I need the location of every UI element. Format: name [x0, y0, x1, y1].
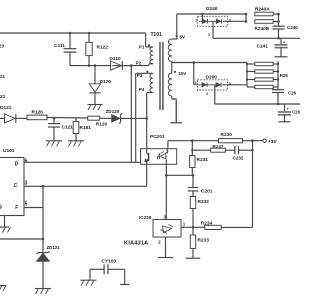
svg-text:P2: P2: [136, 61, 142, 66]
svg-text:3: 3: [229, 82, 231, 86]
svg-text:R240A: R240A: [255, 6, 270, 11]
svg-text:3: 3: [25, 181, 28, 187]
svg-text:C: C: [14, 183, 18, 189]
svg-text:3: 3: [208, 33, 210, 37]
svg-text:IC230: IC230: [139, 215, 152, 220]
svg-text:D: D: [15, 162, 19, 168]
svg-text:R120: R120: [96, 121, 108, 127]
svg-text:C121: C121: [62, 125, 74, 131]
svg-text:5V: 5V: [180, 35, 187, 40]
svg-text:5: 5: [25, 201, 28, 207]
svg-text:R231: R231: [197, 157, 209, 163]
svg-text:R233: R233: [198, 237, 210, 243]
svg-text:F: F: [15, 205, 18, 211]
svg-text:C241: C241: [257, 44, 269, 50]
svg-text:R234: R234: [201, 221, 213, 227]
svg-text:R232: R232: [198, 199, 210, 205]
svg-text:D121: D121: [0, 105, 12, 111]
svg-text:P4: P4: [139, 87, 145, 92]
svg-text:R151: R151: [80, 125, 92, 131]
svg-text:C111: C111: [54, 43, 65, 49]
svg-text:22: 22: [0, 94, 6, 99]
svg-text:23: 23: [0, 44, 5, 49]
svg-text:CY103: CY103: [102, 259, 117, 265]
svg-text:T101: T101: [151, 32, 163, 38]
svg-text:ZD120: ZD120: [106, 109, 120, 114]
svg-text:+3V: +3V: [268, 139, 277, 145]
svg-text:C201: C201: [201, 188, 213, 194]
svg-text:+: +: [286, 107, 289, 112]
svg-text:P3: P3: [137, 73, 143, 78]
svg-text:C26: C26: [288, 90, 297, 95]
svg-text:C261: C261: [292, 109, 300, 114]
svg-text:2: 2: [229, 18, 231, 22]
svg-text:R122: R122: [97, 45, 109, 51]
svg-text:C232: C232: [233, 155, 244, 160]
svg-text:D240: D240: [206, 6, 218, 12]
svg-text:U101: U101: [3, 148, 15, 154]
svg-text:D110: D110: [110, 56, 122, 62]
svg-text:C240: C240: [287, 25, 298, 30]
svg-text:1: 1: [195, 81, 197, 85]
svg-text:15V: 15V: [178, 71, 187, 76]
svg-text:R240B: R240B: [255, 26, 270, 31]
svg-text:R230: R230: [221, 132, 233, 138]
svg-text:21: 21: [0, 74, 6, 79]
svg-text:P1: P1: [139, 45, 145, 50]
svg-text:PC201: PC201: [150, 134, 165, 140]
svg-text:R26: R26: [280, 73, 289, 78]
svg-text:6: 6: [25, 159, 28, 165]
svg-text:2: 2: [206, 92, 208, 96]
svg-text:R126: R126: [32, 110, 44, 116]
svg-text:KIA431A: KIA431A: [124, 240, 148, 246]
svg-text:ZD121: ZD121: [47, 245, 61, 250]
svg-text:1: 1: [195, 19, 197, 23]
svg-text:D120: D120: [100, 79, 112, 85]
svg-text:R237: R237: [213, 144, 224, 149]
